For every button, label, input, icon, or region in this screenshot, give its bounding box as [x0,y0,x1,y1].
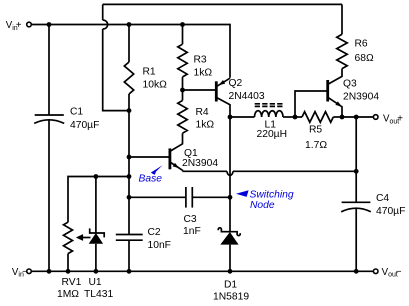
resistor R1 [124,62,133,94]
svg-text:R1: R1 [143,67,156,78]
terminal Vin+ [27,22,32,27]
wire R4 top lead [182,90,184,101]
transistor Q2 collector (bottom) [217,98,230,117]
node output / C4 column [354,115,359,120]
svg-text:1N5819: 1N5819 [213,292,249,303]
transistor Q1 emitter [171,163,183,172]
svg-text:−: − [22,267,28,278]
svg-text:Node: Node [250,200,275,211]
node R3/R4/Q2-base [180,88,185,93]
wire D1 anode lead [229,245,231,272]
node Vin+/R3 [180,22,185,27]
svg-text:D1: D1 [224,279,237,290]
wire Q1 emitter to output sense node [183,170,228,172]
svg-text:+: + [16,20,22,31]
svg-text:68Ω: 68Ω [355,53,374,64]
svg-text:R6: R6 [355,39,368,50]
node Q2 collector / L1 / switch column [228,115,233,120]
svg-text:C2: C2 [148,227,161,238]
svg-text:10nF: 10nF [148,240,171,251]
terminal Vin- [27,269,32,274]
capacitor C3 [185,187,187,208]
annotation Base arrow [151,165,163,175]
svg-text:Base: Base [139,174,163,185]
wire C4 top lead [355,117,357,202]
svg-text:10kΩ: 10kΩ [143,80,168,91]
svg-text:U1: U1 [89,277,102,288]
wire Q2 base [183,89,217,91]
node L1 / R5 / Q3 base [293,115,298,120]
node base wire junction [127,155,132,160]
resistor R6 [337,34,347,68]
svg-text:+: + [397,113,403,124]
transistor Q1 emitter arrow [173,163,180,168]
inductor L1 [230,116,255,118]
transistor Q3 collector [328,69,342,84]
transistor Q2 emitter arrow [219,80,226,85]
node Vin+/C1 [47,22,52,27]
node R1 bottom / top-rail return [127,108,132,113]
node rail/U1 [94,269,99,274]
svg-text:Switching: Switching [250,189,294,200]
wire switching node feed (right of C3) [192,196,230,198]
svg-text:Q2: Q2 [229,78,243,89]
svg-text:1MΩ: 1MΩ [57,289,79,300]
shunt regulator U1 TL431 cathode bar [90,228,105,237]
wire U1 anode lead [95,244,97,271]
wire Q3 base [295,91,328,117]
wire R1 bottom lead [128,94,130,111]
svg-text:220µH: 220µH [257,129,288,140]
wire C2 bottom lead [128,240,130,271]
svg-text:RV1: RV1 [62,277,82,288]
node feedback wire junction [127,174,132,179]
svg-text:C1: C1 [70,107,83,118]
inductor L1 core dashes [255,103,283,105]
svg-text:R4: R4 [196,107,209,118]
wire right drop of top rail to R6 [341,4,343,34]
capacitor C2 [116,234,143,236]
node U1 top [94,174,99,179]
svg-text:2N4403: 2N4403 [229,91,265,102]
capacitor C4 [342,201,371,203]
wire top rail (R1 bottom to R6 top) [103,3,342,5]
wire U1 cathode lead [95,177,97,234]
wire output positive [342,116,374,118]
wire Q1 base [129,156,170,158]
node emitter sense / C4 column [354,169,359,174]
node Q3 emitter / output [340,115,345,120]
svg-text:R5: R5 [309,125,322,136]
transistor Q2 base bar [215,81,218,101]
node rail/RV1 [66,269,71,274]
svg-text:2N3904: 2N3904 [343,91,379,102]
wire R3 bottom lead [182,77,184,90]
terminal Vout+ [373,115,378,120]
wire C1 bottom lead [48,120,50,271]
svg-text:R3: R3 [194,55,207,66]
node rail/C2 [127,269,132,274]
node rail/C4 [354,269,359,274]
shunt regulator U1 ref arrow [79,237,91,239]
diode D1 cathode bar with schottky hooks [218,228,240,236]
wire Vin+ rail to Q2 emitter [31,25,230,78]
potentiometer RV1 [64,222,73,253]
wire C4 bottom lead [355,208,357,271]
svg-text:2N3904: 2N3904 [182,158,218,169]
annotation Switching Node arrow [236,190,249,197]
svg-text:TL431: TL431 [84,289,113,300]
resistor R4 [178,101,187,134]
wire R4 bottom lead / Q1 collector [171,133,183,151]
wire RV1 bottom lead [67,254,69,272]
wire switching node feed (left of C3) [129,196,186,198]
svg-text:470µF: 470µF [376,206,405,217]
transistor Q3 emitter [328,98,342,117]
svg-text:1nF: 1nF [183,226,201,237]
svg-text:1.7Ω: 1.7Ω [305,140,327,151]
diode D1 triangle [220,232,238,245]
wire feedback node to RV1/U1 [68,177,129,223]
transistor Q2 emitter (top) [217,78,230,86]
resistor R3 [178,44,187,77]
node rail/C1 [47,269,52,274]
wire R1 top lead [128,25,130,63]
node switching node [228,195,233,200]
wire C1 top lead [48,25,50,116]
node rail/D1 [228,269,233,274]
node Vin+/R1 [127,22,132,27]
capacitor C1 [35,114,64,116]
resistor R5 [295,116,302,118]
transistor Q1 base bar [168,148,171,169]
wire bottom rail [31,270,373,272]
wire left drop of top rail with hop over Vin+ line [102,4,104,20]
svg-text:C4: C4 [376,193,389,204]
transistor Q3 base bar [326,80,329,102]
node C3 wire junction [127,195,132,200]
svg-text:−: − [396,267,402,278]
terminal Vout- [373,269,378,274]
svg-text:C3: C3 [184,214,197,225]
svg-text:Q3: Q3 [343,78,357,89]
svg-text:470µF: 470µF [70,120,99,131]
svg-text:1kΩ: 1kΩ [194,68,213,79]
wire base-divider column [128,111,130,235]
wire switch column [229,117,231,232]
transistor Q3 emitter arrow [335,101,342,106]
shunt regulator U1 TL431 triangle [89,233,103,244]
wire R3 top lead [182,25,184,45]
svg-text:1kΩ: 1kΩ [196,120,215,131]
